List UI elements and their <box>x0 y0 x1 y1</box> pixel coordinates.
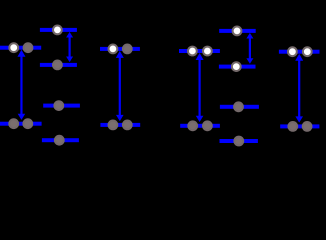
level L2-lower (site 2 ground state) <box>100 123 140 127</box>
hole h7 on A2 <box>232 62 241 71</box>
transition arrow T2 (donor pair, double-headed) <box>66 32 73 62</box>
electron e15 on R2-lower <box>303 122 312 131</box>
hole h2 on D1 <box>53 26 62 35</box>
electron e10 on R1-lower <box>188 121 197 130</box>
electron e2 on L1-lower <box>9 119 18 128</box>
level L1-upper (site 1 excited state) <box>0 46 41 50</box>
electron e8 on L2-lower <box>109 121 118 130</box>
hole h5 on R1-upper <box>203 47 212 56</box>
electron e1 on L1-upper <box>24 43 33 52</box>
hole h3 on L2-upper <box>109 45 118 54</box>
level R1-upper (site 3 excited state) <box>179 49 220 53</box>
level A4 (acceptor bottom level) <box>220 139 258 143</box>
transition arrow T6 (site 4, double-headed) <box>295 54 303 123</box>
level A3 (acceptor third level) <box>220 105 259 109</box>
level A1 (acceptor upper level) <box>219 29 256 33</box>
level R1-lower (site 3 ground state) <box>180 124 220 128</box>
level A2 (acceptor second level) <box>219 65 256 69</box>
electron e13 on A4 <box>234 137 243 146</box>
electron e7 on L2-upper <box>123 45 132 54</box>
level D2 (donor second level) <box>40 63 77 67</box>
electron e12 on A3 <box>234 102 243 111</box>
level R2-upper (site 4 excited state) <box>279 50 320 54</box>
transition arrow T5 (acceptor pair, double-headed) <box>246 33 253 64</box>
electron e6 on D4 <box>55 136 64 145</box>
level R2-lower (site 4 ground state) <box>280 124 319 128</box>
electron e5 on D3 <box>54 101 63 110</box>
electron e3 on L1-lower <box>23 119 32 128</box>
electron e4 on D2 <box>53 61 62 70</box>
hole h9 on R2-upper <box>303 47 312 56</box>
electron e14 on R2-lower <box>288 122 297 131</box>
level L1-lower (site 1 ground state) <box>0 122 42 126</box>
hole h4 on R1-upper <box>188 47 197 56</box>
electron e9 on L2-lower <box>123 121 132 130</box>
level D3 (donor third level) <box>43 104 80 108</box>
level D4 (donor bottom level) <box>42 138 79 142</box>
hole h6 on A1 <box>233 27 242 36</box>
level L2-upper (site 2 excited state) <box>100 47 140 51</box>
hole h1 on L1-upper <box>9 43 18 52</box>
transition arrow T3 (site 2, double-headed) <box>116 51 124 121</box>
electron e11 on R1-lower <box>203 121 212 130</box>
hole h8 on R2-upper <box>288 47 297 56</box>
transition arrow T4 (site 3, double-headed) <box>196 53 204 122</box>
transition arrow T1 (site 1, double-headed) <box>17 50 25 120</box>
level D1 (donor upper level) <box>40 28 77 32</box>
